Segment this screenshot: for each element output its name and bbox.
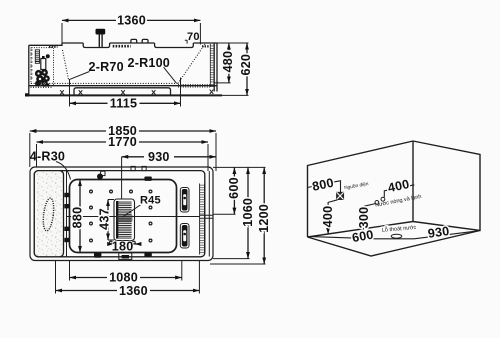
inner profile left slope (dotted)	[63, 50, 69, 80]
svg-text:1115: 1115	[110, 97, 137, 111]
box right wall	[413, 141, 480, 231]
basin rim	[70, 180, 177, 253]
top deck recess 1	[83, 43, 109, 48]
svg-text:1360: 1360	[119, 284, 148, 298]
side view tub rim line	[62, 42, 217, 44]
deck square top b	[142, 166, 146, 170]
dimension 180 arrows	[108, 243, 114, 245]
svg-text:930: 930	[148, 150, 170, 164]
foot X mark 5	[210, 90, 214, 95]
right overflow hatch column	[200, 184, 205, 215]
leader 2-R70	[69, 72, 90, 80]
panel left tick marks	[31, 50, 33, 78]
svg-text:437: 437	[98, 208, 112, 230]
grate dark band	[117, 215, 133, 222]
leader 4-R30	[56, 162, 71, 180]
deck square top left	[101, 171, 105, 175]
right jet slot 1 bar	[182, 189, 188, 211]
control panel dotted frame	[31, 45, 54, 85]
dimension 1060	[247, 167, 249, 258]
dimension 1770	[37, 141, 209, 143]
grate left bar	[116, 201, 118, 239]
plan outer shell	[30, 167, 213, 261]
dimension 1850	[30, 130, 216, 132]
faucet cluster highlights	[37, 72, 47, 85]
headrest stipple area	[34, 171, 63, 257]
svg-text:600: 600	[351, 227, 375, 245]
foot X mark 1	[60, 90, 64, 94]
right dims top connector	[213, 166, 266, 168]
right jet slot 2 window	[183, 230, 186, 241]
right jet slot 1 outline	[180, 188, 189, 213]
power socket symbol	[337, 192, 344, 199]
jets row 1	[90, 190, 152, 193]
rim texture dashes	[113, 45, 131, 48]
deck divider lines	[200, 215, 213, 218]
svg-text:300: 300	[357, 207, 371, 229]
water outlet circle 1	[381, 197, 385, 201]
dimension 930 (plan top)	[122, 156, 216, 158]
svg-text:Nước nóng và lạnh: Nước nóng và lạnh	[375, 194, 422, 209]
foot X mark 3	[121, 90, 125, 94]
right jet slot 1 window	[183, 194, 186, 205]
right jet slot 2 bar	[182, 225, 188, 247]
bottom extension lines	[56, 261, 200, 294]
svg-text:70: 70	[187, 31, 200, 43]
dimension 600 (plan right)	[233, 167, 235, 214]
svg-text:2-R70: 2-R70	[89, 60, 124, 74]
svg-text:R45: R45	[140, 195, 161, 207]
svg-text:2-R100: 2-R100	[128, 56, 171, 70]
grate outline	[114, 199, 135, 241]
dimension 1080	[70, 277, 182, 279]
water outlet circle 2	[375, 201, 379, 205]
svg-text:1060: 1060	[241, 198, 255, 227]
jets row 3	[90, 222, 152, 225]
faucet knob stem	[99, 35, 102, 48]
box floor front edges	[308, 231, 481, 257]
svg-text:1770: 1770	[108, 135, 137, 149]
svg-text:400: 400	[321, 206, 335, 228]
svg-text:1080: 1080	[109, 271, 138, 285]
foot X mark 2	[79, 90, 83, 94]
svg-text:1200: 1200	[257, 204, 271, 233]
top deck recess 2	[155, 43, 194, 48]
grate stripes	[118, 201, 131, 239]
clamp top left	[97, 174, 103, 180]
basin seam line	[67, 216, 200, 218]
dimension 480	[217, 42, 249, 44]
jets row 2	[90, 206, 152, 209]
clamp bottom left	[94, 253, 101, 258]
panel dot	[46, 83, 49, 86]
svg-text:600: 600	[227, 177, 241, 199]
faucet cluster	[35, 69, 50, 87]
floor dimension polyline	[311, 231, 479, 239]
box corner edge	[412, 141, 414, 222]
clamp bottom right	[144, 252, 151, 257]
foot X mark 4	[152, 90, 156, 94]
deck square top a	[131, 166, 135, 170]
inner profile bottom (dotted)	[31, 82, 178, 84]
overflow hatch column	[210, 44, 214, 87]
left border clamps	[64, 193, 69, 242]
skirt arch opening	[74, 88, 171, 95]
floor left block	[25, 93, 29, 96]
437 ticks	[108, 200, 114, 241]
svg-text:1360: 1360	[117, 14, 146, 28]
side view right edge	[213, 43, 215, 92]
rim button 2	[142, 39, 148, 43]
svg-text:4-R30: 4-R30	[30, 149, 65, 163]
panel bottom dotted row	[31, 86, 54, 88]
side view left section top	[29, 43, 62, 45]
side view bottom shell line	[29, 85, 217, 87]
dimension 437	[107, 200, 109, 241]
clamp top right	[144, 177, 151, 181]
bottom drain	[119, 253, 132, 259]
leader 2-R100	[164, 67, 177, 83]
right deck dashes	[202, 45, 210, 47]
dimension 620	[222, 94, 249, 96]
dimension 1360 (top)	[62, 19, 200, 21]
side view right outer edge	[216, 43, 218, 92]
box left wall	[308, 141, 414, 237]
svg-text:400: 400	[387, 177, 411, 195]
floor line	[25, 94, 222, 96]
dimension 880	[79, 180, 81, 253]
socket to 400 line	[328, 200, 337, 235]
dimension 400 right leader	[384, 185, 414, 198]
dimension 1360 (plan bottom)	[56, 290, 200, 292]
svg-text:880: 880	[70, 207, 84, 229]
leader R45	[123, 205, 142, 218]
right jet slot 1 dot	[183, 197, 186, 200]
left rim dashes	[49, 46, 58, 48]
faucet tower	[41, 59, 46, 70]
rim button 1	[131, 39, 137, 43]
control panel ladder bar	[35, 50, 39, 64]
svg-text:930: 930	[427, 224, 450, 241]
overflow column edges	[210, 44, 214, 87]
right deck second line	[208, 171, 210, 257]
right jet slot 2 outline	[180, 224, 189, 249]
jets row 4	[90, 239, 152, 244]
headrest oval (dotted)	[42, 198, 56, 232]
dimension 1200	[263, 167, 265, 264]
control panel small circle	[46, 54, 50, 58]
dimension 70	[185, 40, 187, 44]
dimension 800 leader	[308, 181, 341, 193]
right deck dotted strip	[178, 85, 210, 87]
drain oval	[391, 234, 402, 238]
svg-text:Nguồn điện: Nguồn điện	[344, 181, 370, 191]
side view left edge	[28, 45, 30, 95]
svg-text:480: 480	[221, 51, 235, 73]
right overflow column edges	[200, 184, 205, 255]
faucet tower knob	[42, 56, 45, 59]
svg-text:180: 180	[112, 240, 134, 254]
outlet to 300 line	[364, 204, 375, 229]
svg-text:620: 620	[239, 54, 253, 76]
dimension 1115	[70, 78, 181, 107]
right jet slot 2 dot	[183, 233, 186, 236]
plan deck inner line	[34, 171, 205, 257]
inner profile right slope (dotted)	[178, 44, 205, 83]
faucet knob cap	[96, 29, 106, 35]
headrest divider	[66, 171, 68, 256]
svg-text:800: 800	[311, 176, 335, 194]
